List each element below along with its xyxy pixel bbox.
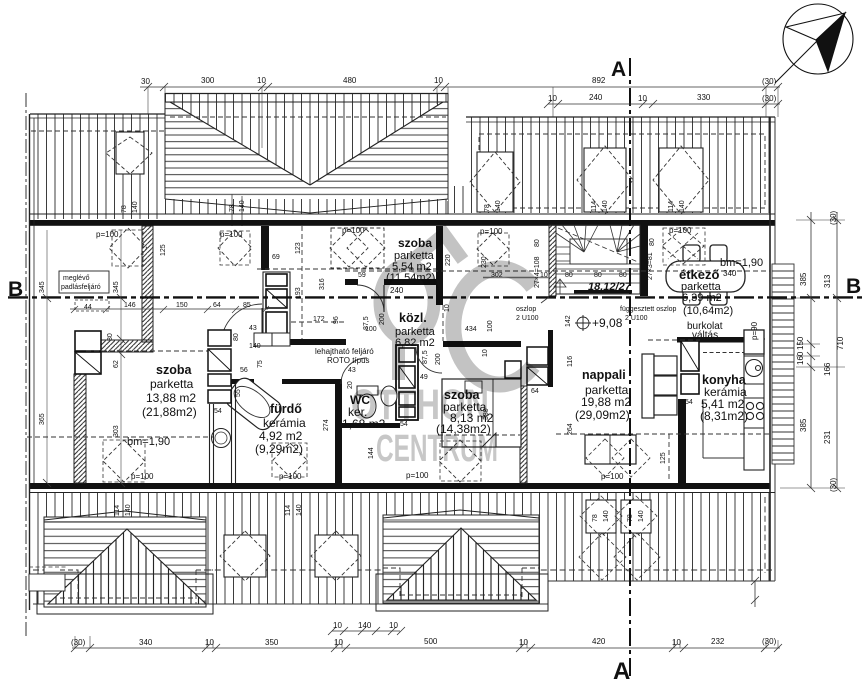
svg-text:fürdő: fürdő (270, 402, 302, 416)
kitchen counter right (744, 330, 764, 470)
skylight right band 1 (470, 152, 520, 212)
svg-text:+9,08: +9,08 (592, 316, 623, 330)
svg-text:44: 44 (84, 304, 92, 311)
svg-text:p=100: p=100 (279, 472, 302, 481)
svg-text:114: 114 (114, 505, 121, 516)
skylight right band 3 (653, 146, 709, 214)
svg-text:parketta: parketta (150, 377, 194, 391)
stairs block (549, 225, 648, 296)
svg-text:10: 10 (638, 94, 647, 103)
svg-text:96: 96 (333, 316, 340, 324)
wall left hatched column (142, 226, 153, 342)
bottom dimension row1 (328, 627, 405, 635)
furdo cabinets top (254, 333, 272, 346)
svg-text:p=100: p=100 (96, 230, 119, 239)
diamond furdo (273, 443, 307, 477)
dashed boxes around room skylights (112, 228, 705, 481)
small eave box bottom-left (29, 574, 65, 591)
svg-text:B: B (8, 278, 23, 301)
svg-text:étkező: étkező (679, 267, 720, 282)
wall szoba-left hatched (74, 374, 86, 483)
svg-text:19,88 m2: 19,88 m2 (581, 395, 631, 409)
wall szoba/furdo thin double (210, 384, 236, 483)
svg-text:(30): (30) (762, 77, 777, 86)
wall wc right / cabinet (396, 345, 418, 420)
svg-text:146: 146 (124, 302, 136, 309)
svg-text:p=100: p=100 (342, 226, 365, 235)
svg-text:231: 231 (823, 430, 832, 444)
bed szoba-mid (442, 379, 521, 447)
svg-text:114: 114 (591, 201, 598, 212)
svg-text:434: 434 (465, 326, 477, 333)
fridge box konyha (744, 330, 764, 354)
svg-text:nappali: nappali (582, 368, 626, 382)
band bottom-right dim marks (751, 577, 759, 607)
wall wc bottom (342, 423, 400, 428)
gable lower vertical-hatch strip (165, 199, 448, 215)
right eave ladder (772, 264, 794, 464)
svg-text:p=100: p=100 (480, 227, 503, 236)
svg-text:(9,29m2): (9,29m2) (255, 442, 303, 456)
wardrobe szoba-left top (75, 331, 101, 374)
svg-text:27×3=81: 27×3=81 (647, 252, 654, 280)
wall szoba1 bottom with door gap (345, 279, 358, 285)
interior dim row under B line (70, 306, 269, 313)
svg-text:114: 114 (285, 505, 292, 516)
top dimension row1 (140, 83, 782, 148)
skylight diamond etkezo (662, 228, 704, 264)
roof band bottom hatch left (33, 493, 548, 604)
meglevo padlasfeljaro (59, 271, 109, 293)
svg-text:345: 345 (39, 281, 46, 293)
svg-text:p=100: p=100 (601, 472, 624, 481)
watermark O leg (392, 340, 405, 380)
svg-text:500: 500 (424, 637, 438, 646)
roof band top-left hatch (30, 114, 165, 219)
svg-text:264: 264 (567, 423, 574, 435)
svg-text:bm=1,90: bm=1,90 (720, 257, 763, 269)
nightstands szoba-mid (505, 347, 548, 385)
svg-text:10: 10 (257, 76, 266, 85)
svg-text:150: 150 (796, 336, 805, 350)
gable bottom-left (37, 511, 213, 614)
svg-text:43: 43 (348, 367, 356, 374)
svg-text:220: 220 (445, 254, 452, 266)
skylight diamond room2 (218, 230, 252, 266)
svg-text:(30): (30) (762, 637, 777, 646)
svg-text:345: 345 (113, 281, 120, 293)
roof band top-right hatch (466, 117, 775, 213)
svg-text:54: 54 (214, 408, 222, 415)
svg-text:80: 80 (233, 333, 240, 341)
konyha top wall (677, 337, 750, 343)
svg-text:80: 80 (565, 272, 573, 279)
skylight diamonds top szoba1 (330, 228, 385, 268)
svg-text:64: 64 (213, 302, 221, 309)
wall top szoba1 right (436, 226, 443, 305)
svg-text:6,39 m2: 6,39 m2 (682, 292, 722, 304)
svg-text:710: 710 (836, 336, 845, 350)
svg-text:420: 420 (592, 637, 606, 646)
svg-text:166: 166 (823, 362, 832, 376)
svg-text:18,12/27: 18,12/27 (588, 281, 632, 293)
svg-text:A: A (611, 58, 626, 81)
svg-text:B: B (846, 275, 861, 298)
konyha counter lines (703, 352, 745, 354)
svg-text:193: 193 (295, 287, 302, 299)
svg-text:330: 330 (697, 93, 711, 102)
svg-text:p=100: p=100 (669, 226, 692, 235)
etkezo table (666, 245, 745, 305)
svg-text:125: 125 (660, 452, 667, 464)
svg-text:140: 140 (296, 504, 303, 516)
svg-text:144: 144 (368, 447, 375, 459)
svg-text:140: 140 (602, 200, 609, 212)
bed pillow (465, 381, 482, 393)
svg-text:10: 10 (540, 272, 548, 279)
svg-text:bm=1,90: bm=1,90 (127, 436, 170, 448)
svg-text:100: 100 (487, 320, 494, 332)
svg-text:10: 10 (389, 621, 398, 630)
svg-text:szoba: szoba (156, 363, 192, 377)
svg-text:(30): (30) (829, 477, 838, 492)
tv cabinet nappali (681, 341, 699, 394)
wall top szoba1 left (261, 226, 269, 270)
gable witness lines (232, 194, 242, 226)
svg-text:140: 140 (495, 200, 502, 212)
svg-text:váltás: váltás (692, 330, 718, 341)
right dimension chains (780, 212, 845, 492)
washbasin furdo (212, 429, 231, 448)
svg-text:10: 10 (434, 76, 443, 85)
svg-text:150: 150 (176, 302, 188, 309)
door arc szoba1 (357, 285, 384, 312)
svg-text:(21,88m2): (21,88m2) (142, 405, 197, 419)
svg-text:385: 385 (799, 272, 808, 286)
island nappali (585, 435, 650, 477)
svg-text:274: 274 (323, 419, 330, 431)
svg-text:140: 140 (679, 200, 686, 212)
svg-text:123: 123 (295, 242, 302, 254)
left outer wall (29, 114, 31, 610)
svg-text:365: 365 (39, 413, 46, 425)
svg-text:340: 340 (139, 638, 153, 647)
bed diamond szoba-mid (439, 440, 481, 482)
svg-text:340: 340 (723, 269, 737, 278)
svg-text:49: 49 (420, 374, 428, 381)
svg-text:OTTHON: OTTHON (351, 381, 489, 429)
left vertical dims (43, 230, 125, 487)
svg-text:p=90: p=90 (750, 321, 759, 340)
skylight bottom right pair squares (579, 496, 660, 580)
svg-text:240: 240 (390, 286, 404, 295)
north arrow (775, 4, 853, 83)
svg-text:(8,31m2): (8,31m2) (700, 409, 748, 423)
svg-text:54: 54 (685, 399, 693, 406)
skylight bottom mid 2 (311, 531, 361, 581)
svg-text:56: 56 (240, 367, 248, 374)
svg-text:(30): (30) (829, 210, 838, 225)
svg-text:p=100: p=100 (220, 230, 243, 239)
svg-text:10: 10 (482, 349, 489, 357)
svg-text:10: 10 (548, 94, 557, 103)
skylight right band 2 (577, 146, 633, 214)
svg-text:43: 43 (249, 325, 257, 332)
top dimension row2 (544, 100, 782, 108)
svg-text:78: 78 (484, 204, 491, 212)
skylight bottom mid 1 (220, 531, 270, 581)
svg-text:2 U100: 2 U100 (516, 315, 539, 322)
svg-text:116: 116 (567, 356, 574, 367)
svg-text:80: 80 (619, 272, 627, 279)
svg-text:140: 140 (638, 510, 645, 522)
wall wc left vertical (335, 384, 342, 483)
svg-text:80: 80 (534, 239, 541, 247)
svg-text:80: 80 (649, 238, 656, 246)
svg-text:303: 303 (113, 425, 120, 437)
right outer wall (769, 117, 771, 581)
svg-text:55: 55 (235, 389, 242, 397)
wall kozl bottom (290, 339, 346, 345)
dashed ceiling-height lines (27, 226, 770, 480)
svg-text:lehajtható feljáró: lehajtható feljáró (315, 347, 374, 356)
svg-text:2 U100: 2 U100 (625, 315, 648, 322)
wall szoba-mid right hatched (520, 386, 527, 483)
svg-text:meglévő: meglévő (63, 275, 90, 282)
svg-text:10: 10 (205, 638, 214, 647)
central gable rect (165, 93, 448, 199)
svg-text:87,5: 87,5 (363, 316, 370, 330)
svg-text:13,88 m2: 13,88 m2 (146, 391, 196, 405)
svg-text:140: 140 (132, 201, 139, 213)
cabinet column kozl top (263, 272, 290, 344)
svg-text:p=100: p=100 (406, 471, 429, 480)
bottom outer wall (30, 483, 770, 489)
roof band bottom hatch right (548, 493, 775, 581)
door arc szoba-mid (416, 347, 442, 373)
svg-text:172: 172 (313, 316, 325, 323)
svg-text:p=100: p=100 (131, 472, 154, 481)
svg-text:69: 69 (272, 254, 280, 261)
svg-text:(29,09m2): (29,09m2) (575, 408, 630, 422)
svg-text:240: 240 (589, 93, 603, 102)
svg-text:A: A (613, 658, 630, 685)
svg-text:140: 140 (603, 510, 610, 522)
roof top-right dashed inset (479, 134, 765, 208)
svg-text:87,5: 87,5 (422, 350, 429, 364)
watermark OC logo C arc (453, 269, 533, 385)
svg-text:140: 140 (358, 621, 372, 630)
svg-text:350: 350 (265, 638, 279, 647)
section line B-B horizontal (8, 296, 862, 298)
roof bottom dashed eave lines (33, 569, 772, 571)
svg-text:64: 64 (531, 388, 539, 395)
svg-text:59: 59 (358, 272, 366, 279)
svg-text:10: 10 (672, 638, 681, 647)
svg-text:(30): (30) (71, 638, 86, 647)
watermark roof chevron (405, 234, 463, 266)
svg-text:oszlop: oszlop (516, 306, 536, 313)
svg-text:75: 75 (257, 360, 264, 368)
svg-text:10: 10 (519, 638, 528, 647)
svg-text:892: 892 (592, 76, 606, 85)
door arc furdo (221, 304, 262, 345)
door arc wc (341, 358, 367, 384)
svg-text:385: 385 (799, 418, 808, 432)
oszlop labels (541, 297, 549, 303)
svg-text:142: 142 (565, 315, 572, 327)
svg-text:padlásfeljáró: padlásfeljáró (61, 284, 101, 291)
svg-text:125: 125 (160, 244, 167, 256)
gable valley lines (170, 102, 310, 185)
svg-text:140: 140 (125, 504, 132, 516)
svg-text:30: 30 (141, 77, 150, 86)
svg-text:CENTRUM: CENTRUM (376, 428, 498, 470)
svg-text:62: 62 (113, 360, 120, 368)
section line A-A vertical (629, 58, 631, 676)
svg-text:316: 316 (319, 278, 326, 290)
gable bottom-center (376, 510, 548, 611)
svg-text:10: 10 (334, 638, 343, 647)
svg-text:480: 480 (343, 76, 357, 85)
left boundary dash-dot (25, 93, 27, 638)
sofa nappali (642, 354, 677, 418)
wall furdo top (214, 379, 254, 384)
svg-text:10: 10 (333, 621, 342, 630)
watermark OC logo ring (380, 265, 434, 339)
wc sink (381, 386, 397, 406)
skylight top-left band (106, 132, 152, 174)
svg-text:80: 80 (594, 272, 602, 279)
svg-text:300: 300 (201, 76, 215, 85)
svg-text:140: 140 (249, 343, 261, 350)
svg-text:kerámia: kerámia (263, 416, 306, 430)
bottom dimension row2 (71, 636, 782, 652)
corridor line (483, 277, 549, 279)
svg-text:114: 114 (668, 201, 675, 212)
svg-text:200: 200 (435, 353, 442, 365)
wardrobe szoba-left wall boxes (208, 330, 231, 403)
svg-text:160: 160 (796, 351, 805, 365)
wall szoba-mid right upper (548, 330, 553, 387)
toilet wc (357, 386, 378, 395)
svg-text:140: 140 (239, 200, 246, 212)
skylight diamond top szoba-right (477, 233, 509, 265)
svg-text:78: 78 (627, 514, 634, 522)
svg-text:(30): (30) (762, 94, 777, 103)
bed diamond szoba-left (103, 440, 145, 482)
level mark (577, 317, 589, 329)
svg-text:313: 313 (823, 274, 832, 288)
svg-text:4,92 m2: 4,92 m2 (259, 429, 303, 443)
svg-text:függesztett oszlop: függesztett oszlop (620, 306, 677, 313)
skylight diamond room1 (109, 228, 147, 268)
svg-text:78: 78 (592, 514, 599, 522)
wall szoba-mid top (443, 341, 521, 347)
svg-text:78: 78 (229, 204, 236, 212)
bathtub (223, 375, 285, 434)
svg-text:30: 30 (107, 333, 114, 341)
konyha-nappali wall below tv (678, 399, 686, 483)
gable-band gap hatch strip (448, 186, 466, 213)
svg-text:232: 232 (711, 637, 725, 646)
svg-text:85: 85 (243, 302, 251, 309)
top outer wall (30, 213, 775, 215)
wall hatched horizontal (101, 340, 153, 352)
svg-text:(10,64m2): (10,64m2) (683, 305, 733, 317)
svg-text:ROTO típus: ROTO típus (327, 356, 370, 365)
svg-text:78: 78 (121, 205, 128, 213)
